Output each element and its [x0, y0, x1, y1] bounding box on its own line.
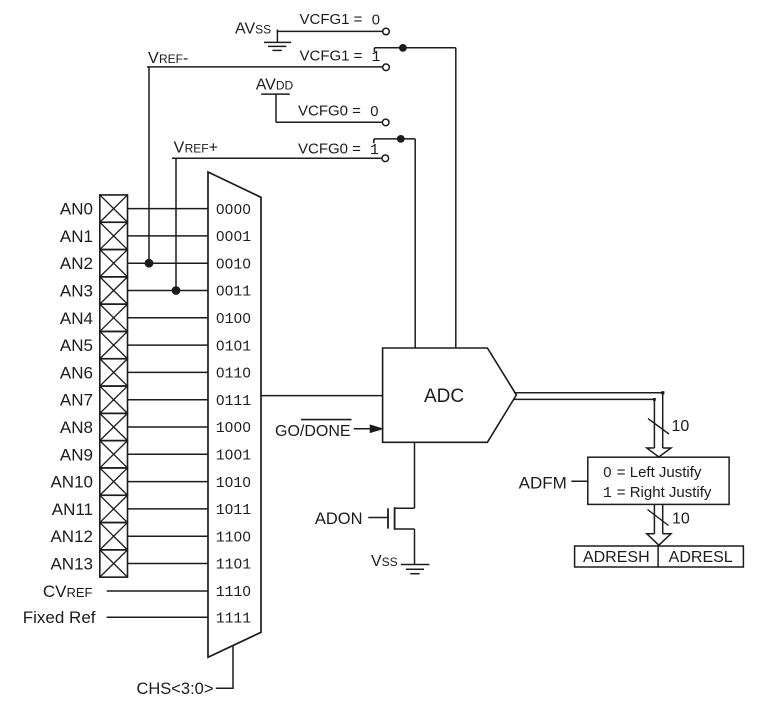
- svg-text:VSS: VSS: [371, 553, 398, 570]
- svg-text:AN5: AN5: [60, 336, 93, 355]
- svg-text:AN4: AN4: [60, 309, 93, 328]
- svg-text:AN10: AN10: [50, 473, 93, 492]
- svg-text:AN3: AN3: [60, 282, 93, 301]
- svg-text:0101: 0101: [216, 338, 251, 355]
- svg-text:0010: 0010: [216, 256, 251, 273]
- svg-text:0: 0: [370, 104, 378, 120]
- svg-text:AN0: AN0: [60, 200, 93, 219]
- svg-text:VCFG0 =: VCFG0 =: [298, 141, 361, 158]
- svg-text:AVDD: AVDD: [256, 77, 294, 94]
- svg-text:VCFG1 =: VCFG1 =: [300, 48, 363, 65]
- svg-text:0001: 0001: [216, 229, 251, 246]
- svg-text:1: 1: [603, 486, 612, 502]
- svg-text:VCFG0 =: VCFG0 =: [298, 103, 361, 120]
- svg-text:REF+: REF+: [185, 140, 218, 157]
- svg-text:= Left Justify: = Left Justify: [617, 464, 702, 481]
- svg-text:1: 1: [370, 143, 379, 159]
- svg-text:0111: 0111: [216, 393, 251, 410]
- svg-text:AN8: AN8: [60, 418, 93, 437]
- svg-text:AN6: AN6: [60, 363, 93, 382]
- svg-text:1110: 1110: [216, 584, 251, 601]
- svg-text:V: V: [174, 140, 185, 157]
- svg-text:GO/DONE: GO/DONE: [275, 423, 351, 440]
- svg-text:0: 0: [603, 465, 611, 481]
- svg-text:AN12: AN12: [50, 527, 93, 546]
- svg-text:= Right Justify: = Right Justify: [617, 484, 712, 501]
- svg-text:AVSS: AVSS: [235, 21, 271, 38]
- svg-text:0: 0: [372, 13, 380, 29]
- svg-text:1011: 1011: [216, 502, 251, 519]
- svg-text:ADRESH: ADRESH: [583, 549, 650, 566]
- svg-text:1100: 1100: [216, 529, 251, 546]
- svg-text:0000: 0000: [216, 202, 251, 218]
- svg-text:10: 10: [672, 418, 690, 435]
- svg-text:VCFG1 =: VCFG1 =: [300, 11, 363, 28]
- svg-text:ADON: ADON: [315, 510, 363, 528]
- svg-text:1111: 1111: [216, 611, 251, 627]
- svg-text:0110: 0110: [216, 366, 251, 383]
- svg-text:AN11: AN11: [52, 500, 93, 519]
- svg-text:ADRESL: ADRESL: [669, 549, 733, 566]
- svg-text:ADFM: ADFM: [519, 474, 567, 493]
- svg-text:Fixed Ref: Fixed Ref: [23, 608, 96, 627]
- svg-text:1000: 1000: [216, 420, 251, 437]
- svg-text:V: V: [148, 50, 159, 67]
- svg-text:1101: 1101: [216, 557, 251, 574]
- svg-text:CVREF: CVREF: [43, 582, 93, 601]
- svg-text:AN1: AN1: [60, 227, 93, 246]
- svg-text:AN13: AN13: [50, 555, 93, 574]
- svg-text:AN2: AN2: [60, 254, 93, 273]
- svg-text:0100: 0100: [216, 311, 251, 328]
- svg-text:1010: 1010: [216, 475, 251, 492]
- svg-text:0011: 0011: [216, 284, 251, 301]
- svg-text:AN9: AN9: [60, 445, 93, 464]
- svg-text:CHS<3:0>: CHS<3:0>: [136, 680, 213, 698]
- svg-text:AN7: AN7: [60, 391, 93, 410]
- svg-text:1: 1: [372, 50, 381, 66]
- svg-text:1001: 1001: [216, 448, 251, 465]
- svg-text:10: 10: [672, 511, 690, 528]
- svg-text:REF-: REF-: [159, 50, 188, 67]
- svg-text:ADC: ADC: [424, 386, 464, 407]
